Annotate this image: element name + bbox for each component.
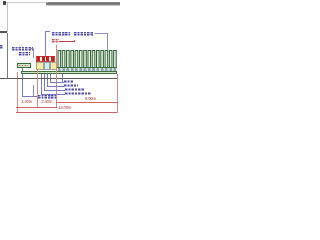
dim line C	[16, 111, 117, 114]
blue label: (platform limit) line1	[12, 47, 33, 51]
dim text 14.00m	[58, 106, 71, 110]
window 3	[46, 56, 49, 61]
left blue text above 2.40m	[38, 95, 56, 99]
window 1	[37, 56, 40, 61]
blue label line2	[19, 52, 30, 56]
dim line A	[16, 106, 57, 109]
text B (red)	[52, 39, 59, 43]
contact rail bar (top right)	[46, 2, 120, 7]
leader to top text A	[44, 31, 47, 56]
right label row4	[65, 92, 91, 95]
long platform bar (green)	[21, 71, 117, 74]
signal-window box (red)	[36, 56, 55, 63]
leader h y86	[47, 85, 64, 88]
window 4	[51, 56, 54, 61]
cyan room	[44, 62, 51, 70]
bars baseline	[57, 67, 117, 68]
dim text 9.00m	[85, 97, 96, 101]
yellow room 2	[50, 62, 56, 70]
right label row2	[64, 84, 78, 87]
U-bracket upstroke x33	[32, 85, 35, 97]
dim text 2.40m #2	[41, 100, 52, 104]
station sign (green)	[17, 63, 31, 68]
red extension x56	[55, 45, 58, 108]
left edge blue fragment	[0, 45, 3, 49]
blue leader v x41	[40, 71, 43, 94]
red extension line x16.6	[16, 72, 19, 113]
leader horizontal to left blue text	[22, 95, 37, 98]
comb bars (fence)	[57, 50, 119, 69]
dim line B	[56, 101, 118, 104]
mast tick	[0, 31, 7, 33]
dim text 2.40m #1	[21, 100, 32, 104]
text C (blue)	[74, 32, 95, 36]
blue leader v x47	[46, 71, 49, 86]
right label row1	[64, 80, 74, 83]
leader h y94	[41, 93, 65, 96]
faint catenary line	[6, 1, 46, 4]
mast lower	[7, 33, 8, 79]
ground line	[0, 78, 118, 80]
leader from text C to combs	[95, 32, 108, 35]
green-bar leader v x62.6	[61, 74, 64, 82]
red extension x37	[36, 70, 39, 108]
yellow room 1	[36, 62, 44, 70]
leader h y90	[44, 89, 65, 92]
red arrow	[59, 40, 75, 43]
window 2	[42, 56, 45, 61]
mast flag	[3, 1, 6, 5]
blue leader v x44	[43, 71, 46, 90]
red extension x117	[116, 74, 119, 113]
blue sleeper row	[57, 68, 117, 71]
sign stem / blue leader down	[21, 68, 24, 97]
right label row3	[65, 88, 85, 91]
text A (blue)	[52, 32, 71, 36]
red dashes inside sign	[19, 65, 28, 66]
leader h y82	[50, 81, 64, 84]
mast upper	[6, 2, 9, 32]
bracket leader of left label	[30, 47, 34, 50]
blue leader v x50	[49, 71, 52, 82]
